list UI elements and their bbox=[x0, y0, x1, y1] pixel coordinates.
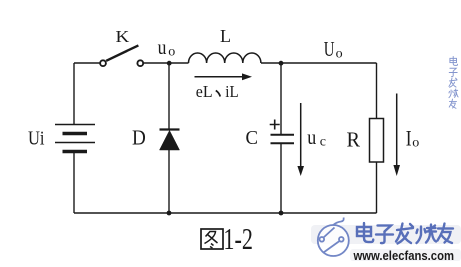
node uo dot bbox=[167, 61, 172, 66]
svg-text:o: o bbox=[412, 136, 419, 151]
ideographic comma bbox=[216, 91, 220, 97]
diode D cathode bar bbox=[160, 128, 180, 130]
svg-text:I: I bbox=[406, 126, 412, 151]
svg-text:Ui: Ui bbox=[28, 127, 45, 149]
svg-text:u: u bbox=[307, 125, 316, 149]
capacitor C plates bbox=[271, 134, 295, 136]
switch K left terminal circle bbox=[100, 60, 106, 66]
svg-text:o: o bbox=[168, 45, 175, 60]
label plus bbox=[270, 120, 280, 130]
small glyph zi bbox=[449, 68, 457, 76]
watermark right edge vertical text bbox=[449, 56, 458, 108]
wire: inductor to node 2 bbox=[261, 62, 377, 64]
wire: node 2 down to capacitor bbox=[280, 63, 282, 134]
wire: switch to node uo bbox=[144, 62, 189, 64]
svg-text:o: o bbox=[336, 46, 343, 61]
arrow uc bbox=[300, 103, 302, 168]
wire: resistor to bottom rail corner bbox=[376, 162, 378, 213]
switch K right terminal circle bbox=[137, 60, 143, 66]
wire: left rail vertical down to battery top plate bbox=[73, 63, 75, 124]
wire: bottom rail bbox=[74, 212, 377, 214]
svg-text:C: C bbox=[246, 127, 259, 149]
glyph you bbox=[438, 224, 454, 244]
caption: glyph tu (图) bbox=[201, 229, 223, 249]
watermark logo circle bbox=[318, 218, 349, 257]
small glyph dian bbox=[450, 56, 458, 65]
watermark emboss band bbox=[311, 225, 461, 244]
diode D triangle bbox=[160, 131, 180, 151]
switch K blade bbox=[106, 45, 138, 60]
arrow Io bbox=[396, 94, 398, 168]
glyph dian bbox=[357, 223, 373, 242]
wire: node uo down to diode bbox=[168, 63, 170, 129]
svg-text:R: R bbox=[347, 127, 361, 151]
arrow under inductor bbox=[195, 76, 244, 78]
wire: left rail from battery bottom to bottom rail bbox=[73, 153, 75, 213]
glyph shao bbox=[417, 225, 437, 244]
node: capacitor bottom dot bbox=[279, 211, 284, 216]
svg-text:U: U bbox=[324, 37, 335, 61]
inductor L winding bbox=[189, 53, 261, 63]
svg-text:1-2: 1-2 bbox=[223, 221, 253, 256]
small glyph you bbox=[449, 99, 456, 108]
resistor R box bbox=[370, 119, 384, 163]
node: diode bottom dot bbox=[167, 211, 172, 216]
small glyph fa bbox=[449, 78, 457, 87]
svg-text:D: D bbox=[132, 125, 146, 149]
svg-text:L: L bbox=[220, 26, 231, 46]
svg-text:c: c bbox=[320, 135, 326, 150]
wire: diode to bottom rail bbox=[168, 150, 170, 213]
glyph fa bbox=[396, 224, 413, 244]
svg-text:K: K bbox=[116, 27, 130, 46]
small glyph shao bbox=[449, 89, 458, 98]
battery Ui plates bbox=[55, 125, 95, 152]
svg-text:eL: eL bbox=[196, 82, 213, 101]
svg-text:iL: iL bbox=[225, 82, 238, 101]
watermark emboss band lower bbox=[350, 249, 461, 261]
node 2 dot bbox=[279, 61, 284, 66]
glyph zi bbox=[376, 226, 393, 244]
watermark text highlight overlay bbox=[357, 223, 453, 244]
wire: top-left horizontal from left rail corner to switch bbox=[74, 62, 100, 64]
watermark text dian zi fa shao you bbox=[357, 223, 453, 244]
svg-text:www.elecfans.com: www.elecfans.com bbox=[353, 248, 454, 263]
wire: top right to resistor bbox=[376, 63, 378, 119]
svg-text:u: u bbox=[158, 35, 167, 59]
wire: capacitor to bottom rail bbox=[280, 144, 282, 213]
